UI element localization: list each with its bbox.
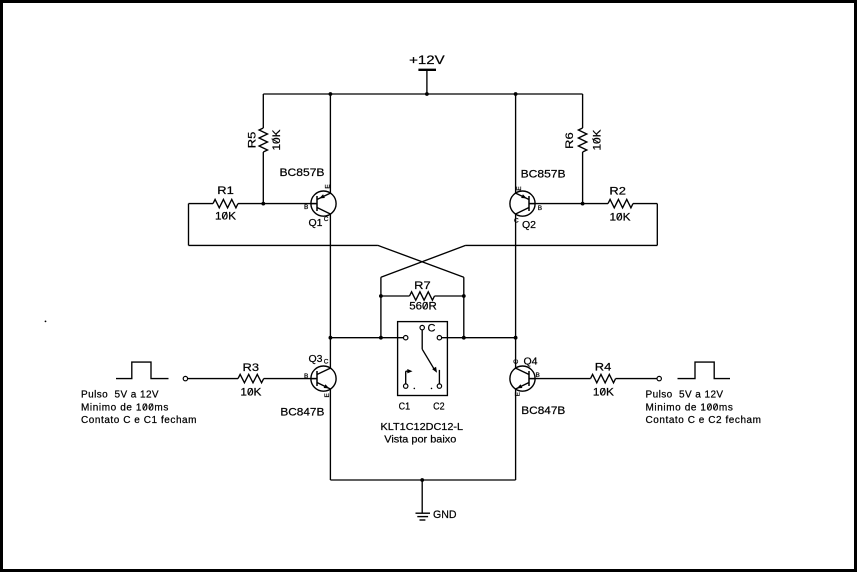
wire R3 to Q3 base xyxy=(264,378,317,380)
wire left stub to R1 xyxy=(189,203,214,205)
transistor Q4 (BC847B, NPN) xyxy=(510,366,535,391)
wire R6 to Q2 base node xyxy=(582,152,584,204)
wire Q4 base to R4 xyxy=(529,378,591,380)
relay K1 outline (KLT1C12DC12-L) xyxy=(398,322,448,396)
svg-text:R4: R4 xyxy=(595,362,612,374)
resistor R2 xyxy=(608,185,633,223)
svg-text:R3: R3 xyxy=(243,362,260,374)
pin label B (Q3) xyxy=(304,373,308,380)
wire Q3 emitter to ground rail xyxy=(329,389,331,480)
svg-text:GND: GND xyxy=(433,509,457,521)
wire rail to Q1 emitter xyxy=(329,94,331,193)
junction coil wire / Q1 column xyxy=(329,336,333,340)
label Q2 xyxy=(522,219,536,231)
wire rail to Q2 emitter xyxy=(515,94,517,193)
svg-text:Q4: Q4 xyxy=(524,355,538,367)
wire R7 right lead xyxy=(435,295,464,297)
svg-text:BC847B: BC847B xyxy=(280,407,324,419)
pulse waveform (left input) xyxy=(116,362,169,379)
relay pin mark right xyxy=(431,388,433,390)
resistor R4 xyxy=(591,362,616,399)
input terminal left xyxy=(183,376,187,380)
svg-text:E: E xyxy=(516,186,523,191)
wire +12V rail xyxy=(263,93,582,95)
power +12V symbol xyxy=(409,55,445,94)
svg-text:KLT1C12DC12-L: KLT1C12DC12-L xyxy=(381,421,464,433)
wire R4 to input xyxy=(616,378,657,380)
svg-text:Minimo de 100ms: Minimo de 100ms xyxy=(646,402,734,413)
relay C2 contact lead xyxy=(438,370,440,384)
junction rail / Q1 emitter xyxy=(329,92,333,96)
junction R5 / R1 / Q1 base xyxy=(261,202,265,206)
wire input to R3 xyxy=(188,378,238,380)
pin label E (Q2) xyxy=(516,186,523,191)
wire R7 left lead xyxy=(381,295,410,297)
wire Q1 collector to Q3 collector xyxy=(329,214,331,368)
relay pin mark left xyxy=(414,388,416,390)
pin label C (Q1) xyxy=(324,216,329,223)
wire R2 to right stub xyxy=(633,203,657,205)
note text left input xyxy=(81,390,197,427)
svg-text:R6: R6 xyxy=(564,132,576,149)
svg-text:R2: R2 xyxy=(609,185,626,197)
svg-text:Q1: Q1 xyxy=(309,217,323,229)
svg-text:Contato C e C2 fecham: Contato C e C2 fecham xyxy=(646,415,762,426)
svg-text:C: C xyxy=(428,323,436,335)
resistor R7 xyxy=(409,280,437,313)
pin label C (Q3) xyxy=(324,359,329,366)
label C2 xyxy=(433,400,445,412)
svg-text:Vista por baixo: Vista por baixo xyxy=(384,433,456,445)
svg-text:C: C xyxy=(324,359,329,366)
svg-text:E: E xyxy=(324,392,331,397)
relay switch arm xyxy=(422,330,437,373)
wire Q2 base to R2 xyxy=(529,203,608,205)
wire R7 left node to coil wire xyxy=(380,296,382,338)
svg-text:R1: R1 xyxy=(217,185,234,197)
wire cross-couple left horizontal xyxy=(189,244,378,246)
svg-text:C: C xyxy=(514,218,519,225)
pin label E (Q1) xyxy=(325,184,332,189)
svg-text:BC857B: BC857B xyxy=(280,167,325,179)
transistor Q1 (BC857B, PNP) xyxy=(311,191,336,216)
wire rail to R5 xyxy=(262,94,264,128)
wire left stub down xyxy=(188,204,190,246)
label Q1 xyxy=(309,217,323,229)
svg-text:10K: 10K xyxy=(215,210,237,222)
resistor R5 xyxy=(246,128,282,152)
relay terminal C1 pin xyxy=(404,384,408,388)
svg-text:C2: C2 xyxy=(433,400,445,412)
svg-text:BC857B: BC857B xyxy=(521,169,566,181)
label GND xyxy=(433,509,457,521)
svg-text:R5: R5 xyxy=(246,132,258,149)
label BC847B (Q4 type) xyxy=(521,405,565,417)
label relay part number xyxy=(381,421,464,433)
ground symbol xyxy=(416,513,431,520)
svg-text:C: C xyxy=(513,359,520,364)
relay terminal C2 pin xyxy=(437,384,441,388)
resistor R1 xyxy=(213,185,238,222)
pin label B (Q2) xyxy=(538,205,542,212)
junction rail / Q2 emitter xyxy=(514,92,518,96)
wire rail to R6 xyxy=(582,94,584,128)
junction coil wire / Q2 column xyxy=(514,336,518,340)
label BC847B (Q3 type) xyxy=(280,407,324,419)
svg-text:Pulso 5V a 12V: Pulso 5V a 12V xyxy=(81,390,159,401)
wire relay right pin to Q2/Q4 collectors xyxy=(442,337,516,339)
svg-text:BC847B: BC847B xyxy=(521,405,565,417)
resistor R3 xyxy=(238,362,264,399)
svg-text:Minimo de 100ms: Minimo de 100ms xyxy=(81,402,169,413)
label Q4 xyxy=(524,355,538,367)
label BC857B (Q1 type) xyxy=(280,167,325,179)
svg-text:+12V: +12V xyxy=(409,55,445,67)
wire ground rail xyxy=(330,479,515,481)
junction coil wire / R7 left xyxy=(379,336,383,340)
wire cross-couple right diagonal xyxy=(381,245,466,277)
svg-text:E: E xyxy=(514,391,521,396)
label relay view note xyxy=(384,433,456,445)
wire right stub down xyxy=(656,204,658,246)
resistor R6 xyxy=(564,128,604,152)
transistor Q2 (BC857B, PNP) xyxy=(510,191,535,216)
wire R7 right node to coil wire xyxy=(463,296,465,338)
wire cross-couple left diagonal xyxy=(378,245,464,277)
wire cross-couple right drop xyxy=(380,277,382,296)
label BC857B (Q2 type) xyxy=(521,169,566,181)
relay terminal coil right xyxy=(437,336,441,340)
svg-text:10K: 10K xyxy=(593,387,615,399)
junction R7 right node xyxy=(462,294,466,298)
wire R5 to Q1 base node xyxy=(262,152,264,204)
stray dot mark xyxy=(45,321,47,323)
svg-text:Pulso 5V a 12V: Pulso 5V a 12V xyxy=(646,390,724,401)
label C1 xyxy=(399,400,411,412)
svg-text:C1: C1 xyxy=(399,400,411,412)
wire R1 to Q1 base xyxy=(238,203,317,205)
junction ground tap xyxy=(420,478,424,482)
wire cross-couple right horizontal xyxy=(466,244,658,246)
relay terminal C xyxy=(420,323,436,335)
wire Q1/Q3 collectors to relay left pin xyxy=(330,337,403,339)
wire cross-couple left drop xyxy=(463,277,465,296)
svg-text:B: B xyxy=(538,205,542,212)
svg-text:C: C xyxy=(324,216,329,223)
pin label E (Q4) xyxy=(514,391,521,396)
note text right input xyxy=(646,390,762,427)
svg-text:R7: R7 xyxy=(414,280,431,292)
wire Q2 collector to Q4 collector xyxy=(515,214,517,368)
svg-text:Contato C e C1 fecham: Contato C e C1 fecham xyxy=(81,415,197,426)
relay terminal coil left xyxy=(404,336,408,340)
svg-text:B: B xyxy=(304,204,308,211)
pin label C (Q2) xyxy=(514,218,519,225)
input terminal right xyxy=(657,376,661,380)
pin label B (Q4) xyxy=(536,372,540,379)
junction coil wire / R7 right xyxy=(462,336,466,340)
svg-text:560R: 560R xyxy=(409,301,437,313)
pin label C (Q4) xyxy=(513,359,520,364)
pin label E (Q3) xyxy=(324,392,331,397)
junction rail / +12V tap xyxy=(425,92,429,96)
pulse waveform (right input) xyxy=(678,362,731,379)
svg-text:E: E xyxy=(325,184,332,189)
pin label B (Q1) xyxy=(304,204,308,211)
junction R6 / R2 / Q2 base xyxy=(581,202,585,206)
svg-text:10K: 10K xyxy=(240,387,262,399)
transistor Q3 (BC847B, NPN) xyxy=(311,366,336,391)
relay C1 contact arrow xyxy=(406,369,413,384)
label Q3 xyxy=(309,353,323,365)
svg-text:Q3: Q3 xyxy=(309,353,323,365)
junction R7 left node xyxy=(379,294,383,298)
wire to ground symbol xyxy=(421,480,423,513)
svg-text:10K: 10K xyxy=(610,211,632,223)
svg-text:Q2: Q2 xyxy=(522,219,536,231)
wire Q4 emitter to ground rail xyxy=(515,389,517,480)
